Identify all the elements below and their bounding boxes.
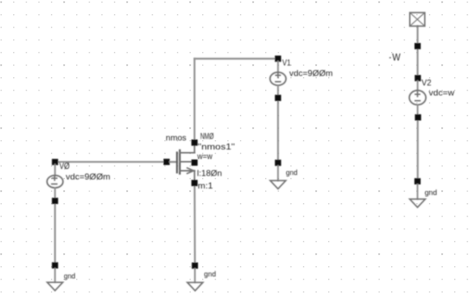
label NM0	[200, 132, 214, 141]
noConn box with X (net W top)	[410, 13, 425, 27]
ground symbol gnd (V2)	[410, 178, 426, 207]
wire: V2 minus terminal down to gnd	[417, 117, 419, 181]
svg-text:W: W	[392, 52, 400, 64]
svg-text:w=w: w=w	[196, 152, 212, 161]
wire drain net: NM0 drain up and across to V1 plus terminal	[195, 59, 279, 143]
label net W	[389, 52, 400, 64]
svg-text:gnd: gnd	[64, 271, 76, 280]
label vdc=900m (V1)	[289, 69, 333, 78]
wire net W: noConn box down through V2	[417, 26, 419, 78]
label V0	[59, 161, 69, 171]
svg-text:"nmos1": "nmos1"	[198, 143, 235, 152]
label V1	[282, 58, 291, 67]
ground symbol gnd (V0)	[47, 262, 63, 290]
label gnd (V0)	[64, 271, 76, 280]
svg-text:m:1: m:1	[198, 182, 214, 191]
svg-text:l:18Øn: l:18Øn	[197, 169, 222, 178]
label vdc=900m (V0)	[66, 173, 111, 182]
voltage source V2	[409, 75, 426, 121]
svg-text:gnd: gnd	[204, 269, 216, 278]
ground symbol gnd (NM0 source)	[187, 263, 203, 291]
svg-text:nmos: nmos	[166, 134, 187, 143]
svg-text:gnd: gnd	[425, 188, 438, 197]
ground symbol gnd (V1)	[270, 160, 286, 189]
wire: V0 minus terminal down to gnd	[54, 201, 56, 266]
wire: NM0 source down to gnd	[194, 183, 196, 266]
label vdc=w	[429, 89, 455, 98]
label gnd (NM0 source)	[204, 269, 216, 278]
label nmos	[166, 134, 187, 143]
transistor NM0 nmos	[164, 140, 198, 187]
label gnd (V1)	[286, 168, 298, 177]
svg-text:vdc=9ØØm: vdc=9ØØm	[66, 173, 111, 182]
svg-text:NMØ: NMØ	[200, 132, 214, 141]
wire gate net: V0 plus terminal to NM0 gate	[55, 161, 177, 163]
label w=w	[196, 152, 212, 161]
svg-text:vdc=9ØØm: vdc=9ØØm	[289, 69, 333, 78]
svg-text:VØ: VØ	[59, 161, 69, 171]
svg-text:V1: V1	[282, 58, 291, 67]
wire: V1 minus terminal down to gnd	[277, 98, 279, 163]
label l:180n	[197, 169, 222, 178]
voltage source V0	[47, 159, 63, 204]
svg-text:vdc=w: vdc=w	[429, 89, 455, 98]
svg-text:gnd: gnd	[286, 168, 298, 177]
voltage source V1	[270, 56, 286, 101]
node pin square on net W	[415, 43, 421, 49]
label V2	[422, 78, 432, 88]
label gnd (V2)	[425, 188, 438, 197]
label m:1	[198, 182, 214, 191]
label "nmos1"	[198, 143, 235, 152]
svg-text:V2: V2	[422, 78, 432, 88]
